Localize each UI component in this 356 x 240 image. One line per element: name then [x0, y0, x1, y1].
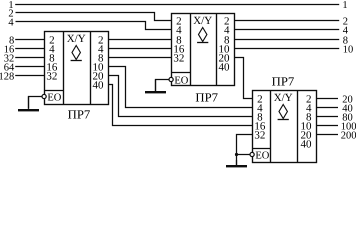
wire U2 output 8 [235, 39, 340, 41]
wire input 1 straight through to output 1 [15, 4, 339, 6]
wire input 128 to U1 [15, 75, 44, 77]
wire U2 output 10 [235, 48, 340, 50]
ground G1 [18, 97, 39, 112]
wire U3 EO to ground net [237, 154, 251, 156]
U3 EO inversion circle [250, 152, 254, 156]
wire U2 output 2 [235, 20, 340, 22]
wire U2 output 4 [235, 29, 340, 31]
ground G2 [145, 80, 166, 94]
wire U1 EO to ground [29, 97, 43, 109]
svg-text:10: 10 [343, 44, 354, 55]
svg-text:X/Y: X/Y [193, 15, 212, 27]
wire U1 output 2 to U2 input [109, 39, 172, 41]
wire U1 output 8 to U2 input [109, 57, 172, 59]
wire U3 output 40 [317, 107, 339, 109]
svg-text:ПР7: ПР7 [68, 107, 91, 121]
U1 open-collector diamond symbol [71, 46, 82, 61]
svg-text:32: 32 [46, 70, 57, 82]
wire input 16 to U1 [15, 48, 44, 50]
svg-text:1: 1 [342, 0, 347, 11]
converter chip U2 PR7 block outline [172, 14, 235, 86]
converter chip U3 PR7 block outline [253, 91, 317, 163]
node junction dot EO/32 ground tee [235, 153, 238, 156]
svg-text:200: 200 [341, 130, 356, 141]
svg-text:40: 40 [219, 61, 231, 73]
wire U3 output 100 [317, 125, 339, 127]
svg-text:40: 40 [301, 138, 313, 150]
svg-text:4: 4 [8, 17, 14, 28]
U2 open-collector diamond symbol [197, 28, 208, 43]
svg-text:EO: EO [47, 92, 61, 103]
svg-text:32: 32 [254, 129, 265, 141]
wire U3 output 20 [317, 98, 339, 100]
svg-text:32: 32 [173, 52, 184, 64]
wire U3 output 80 [317, 116, 339, 118]
svg-text:ПР7: ПР7 [195, 90, 218, 104]
converter chip U1 PR7 block outline [45, 32, 109, 105]
wire U1 pin 20 to U3 pin 8 [109, 76, 253, 117]
svg-text:EO: EO [255, 150, 269, 161]
wire input 2 to U2 pin 2 [16, 13, 172, 21]
wire U2 pin 20 to U3 pin 2 [235, 58, 253, 99]
U1 EO section divider [45, 90, 64, 92]
svg-text:128: 128 [0, 71, 14, 82]
wire U3 pin 32 down to ground net [237, 135, 253, 166]
wire U1 pin 40 to U3 pin 16 [109, 85, 253, 126]
wire input 4 to U2 pin 4 [16, 22, 172, 30]
wire input 32 to U1 [15, 57, 44, 59]
svg-text:40: 40 [93, 79, 105, 91]
U1 EO inversion circle [42, 94, 46, 98]
svg-text:EO: EO [174, 75, 188, 86]
wire input 64 to U1 [15, 66, 44, 68]
wire U1 output 4 to U2 input [109, 48, 172, 50]
svg-text:X/Y: X/Y [67, 33, 86, 45]
wire U3 output 200 [317, 134, 339, 136]
U3 open-collector diamond symbol [278, 105, 289, 120]
U2 EO section divider [172, 72, 191, 74]
ground G3 [226, 160, 247, 167]
wire input 8 to U1 [15, 39, 44, 41]
U2 EO inversion circle [169, 77, 173, 81]
wire U2 EO to ground [156, 80, 170, 92]
U3 EO section divider [253, 148, 271, 150]
svg-text:ПР7: ПР7 [272, 75, 295, 89]
wire U1 pin 10 to U3 pin 4 [109, 67, 253, 108]
svg-text:X/Y: X/Y [274, 92, 293, 104]
